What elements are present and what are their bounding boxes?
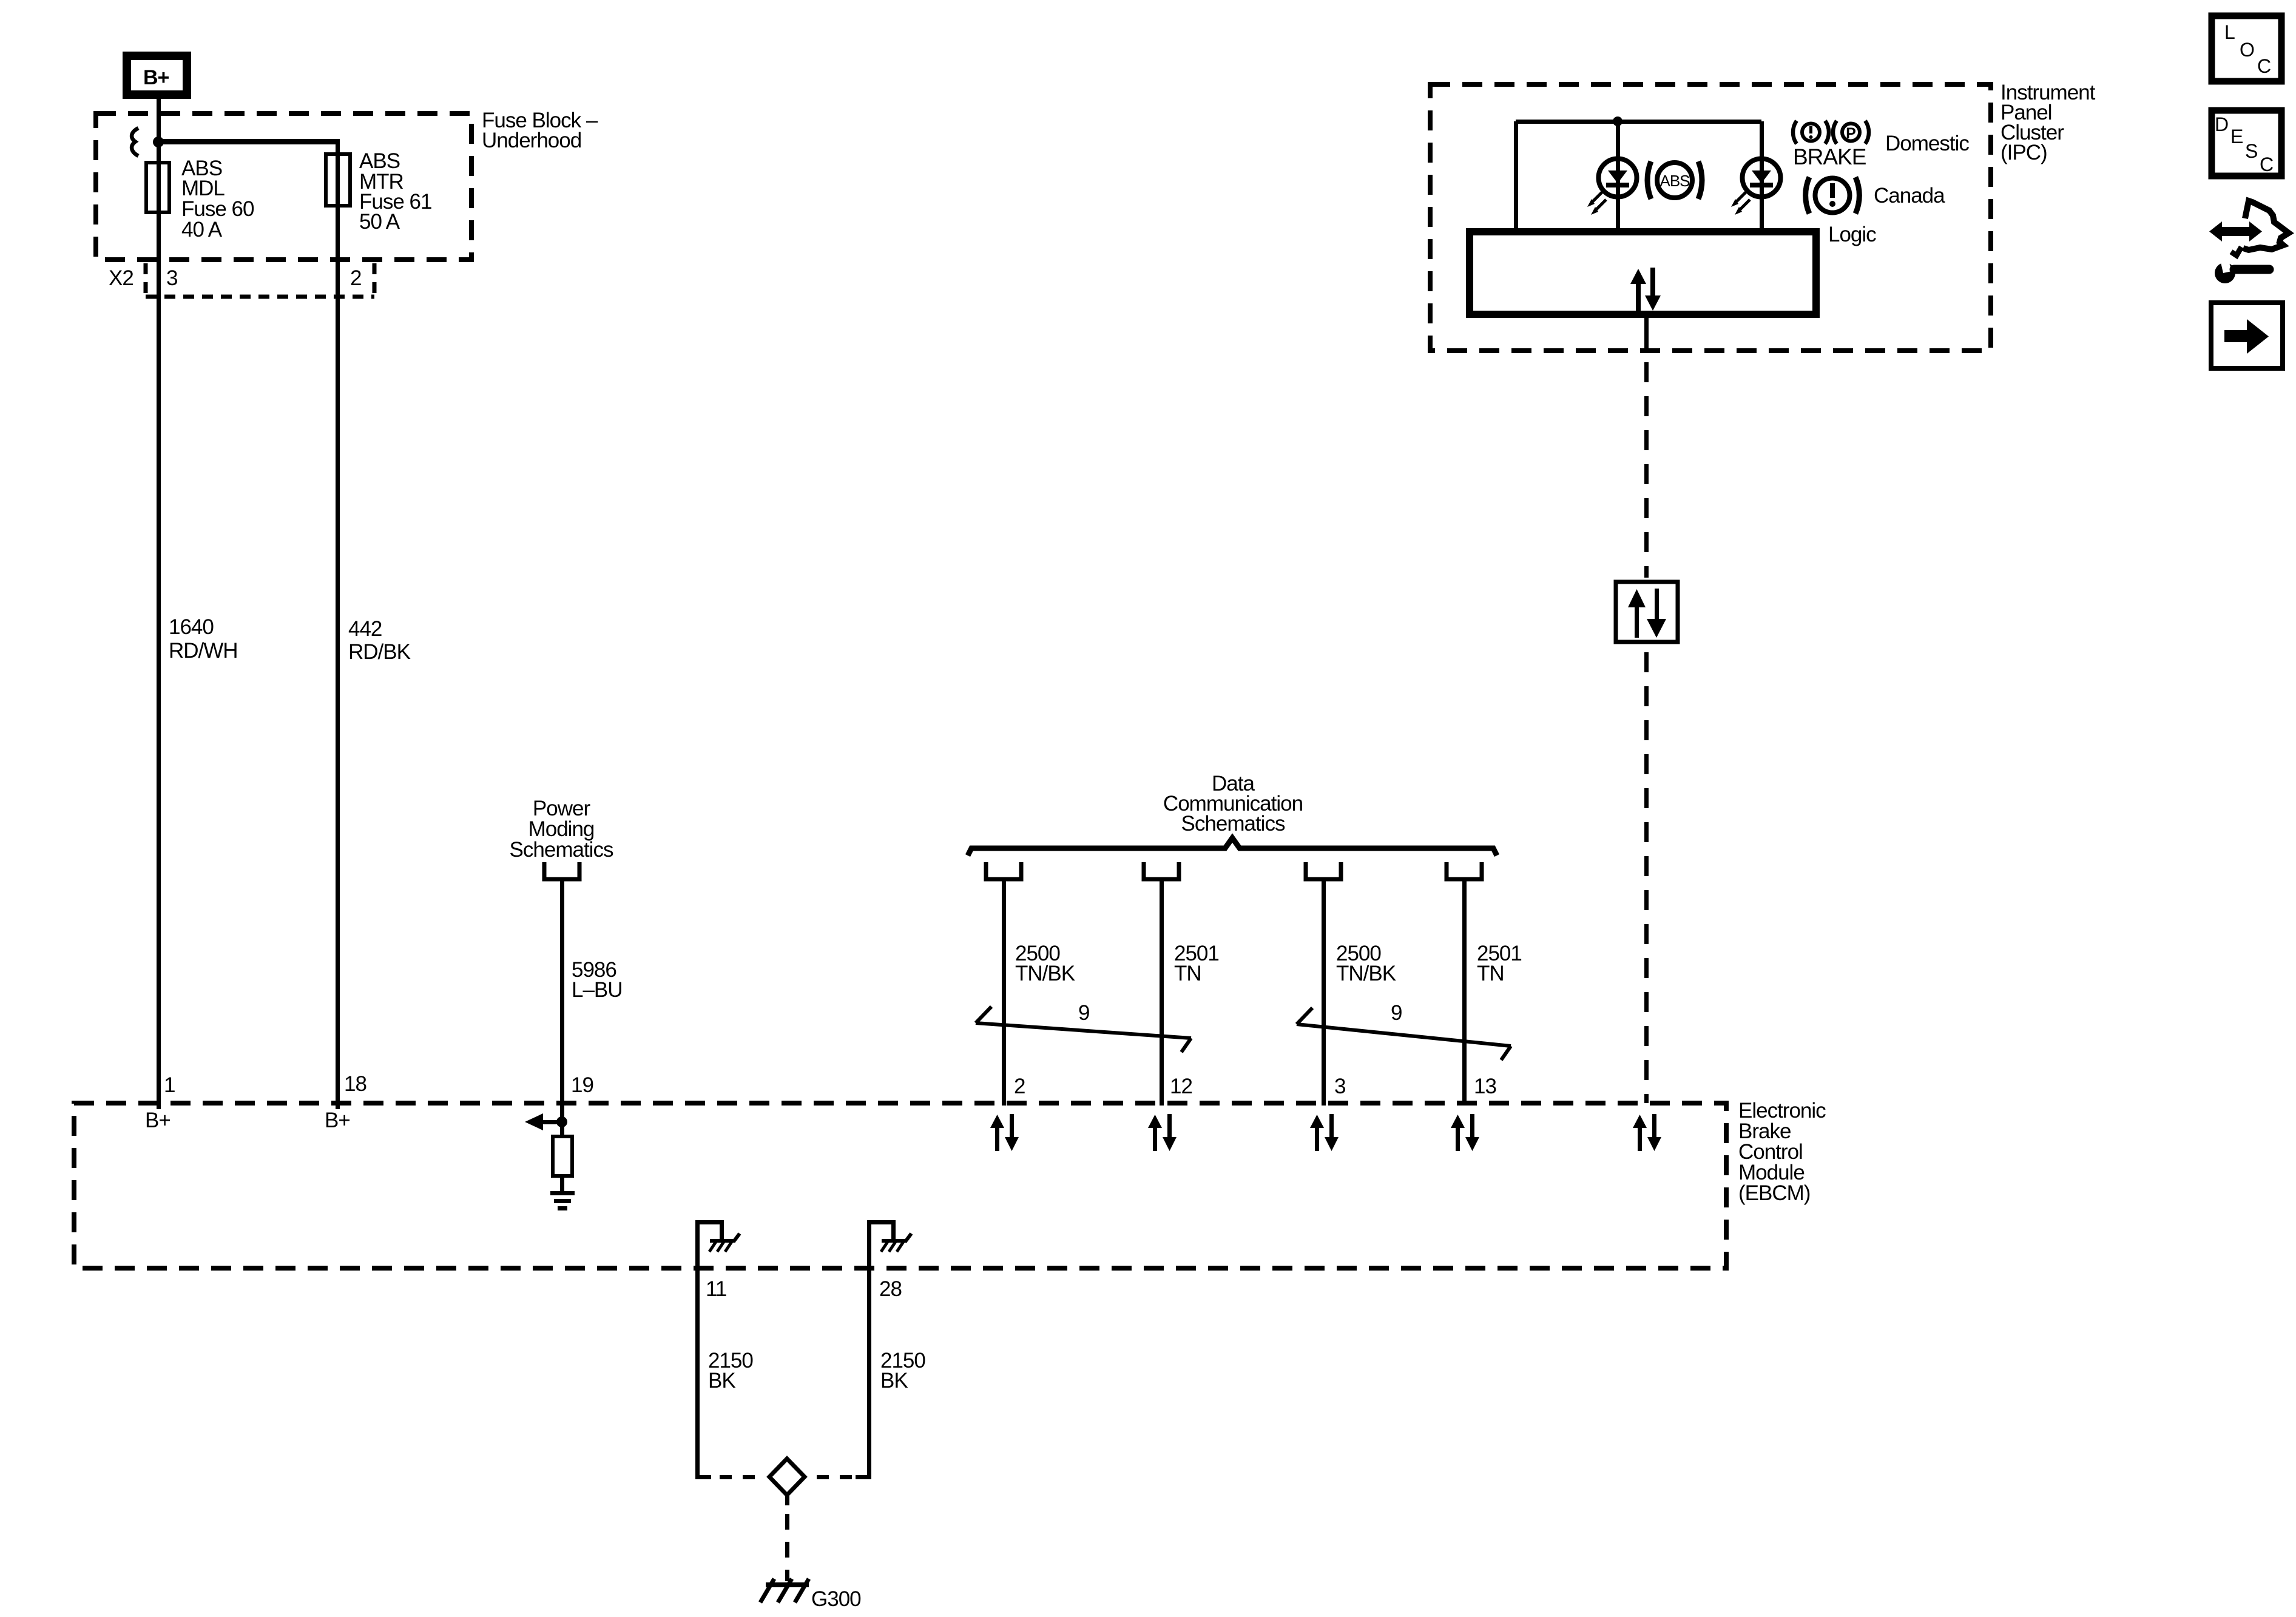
wire fuse 61 leg: [336, 142, 340, 1109]
pin19 internal: arrow to logic: [525, 1113, 543, 1130]
logic up/down arrows: [1630, 268, 1661, 312]
EBCM ground pin 28 internal: [867, 1220, 911, 1477]
svg-text:(EBCM): (EBCM): [1738, 1181, 1810, 1205]
svg-text:9: 9: [1391, 1001, 1402, 1025]
data bus bracket pin13: [1447, 862, 1482, 885]
IPC logic block: [1470, 232, 1816, 314]
up/down arrows pin 12: [1148, 1114, 1177, 1151]
splice feed dashed (pin11 to splice): [695, 1475, 711, 1479]
DESC reference box: [2212, 110, 2281, 176]
svg-text:ABS: ABS: [1660, 172, 1690, 190]
data bus bracket pin3: [1306, 862, 1341, 885]
Instrument Panel Cluster dashed box: [1430, 84, 1991, 351]
svg-text:2: 2: [350, 266, 361, 290]
svg-text:12: 12: [1170, 1075, 1192, 1098]
IPC internal supply wire: [1516, 120, 1761, 124]
wire branch to fuse 61: [157, 139, 340, 144]
svg-text:28: 28: [879, 1277, 902, 1301]
BRAKE domestic indicator: [1793, 121, 1869, 169]
svg-text:19: 19: [571, 1073, 593, 1097]
wire to logic left: [1514, 121, 1518, 231]
svg-text:G300: G300: [811, 1587, 861, 1611]
off-page bracket power moding: [544, 862, 579, 879]
up/down arrows pin 3: [1310, 1114, 1339, 1151]
svg-text:11: 11: [706, 1277, 726, 1301]
splice feed dashed (pin28 to splice): [856, 1475, 871, 1479]
junction dot pin19: [556, 1116, 567, 1127]
svg-text:E: E: [2230, 126, 2243, 147]
svg-text:3: 3: [1334, 1075, 1345, 1098]
svg-text:40 A: 40 A: [181, 218, 223, 241]
data communication brace: [968, 838, 1497, 856]
resistor (EBCM internal pull): [553, 1136, 572, 1176]
wire pin19 stub below line: [560, 1106, 564, 1136]
Canada brake indicator: [1806, 177, 1860, 214]
up/down arrows serial data pin: [1633, 1114, 1661, 1151]
svg-text:BRAKE: BRAKE: [1793, 144, 1866, 169]
svg-text:442: 442: [348, 617, 382, 641]
wire 2500 TN/BK (pin3): [1322, 883, 1326, 1106]
svg-text:13: 13: [1474, 1075, 1496, 1098]
svg-text:S: S: [2245, 140, 2258, 162]
splice clip curl: [132, 128, 138, 156]
EBCM dashed box: [74, 1103, 1726, 1268]
svg-text:Underhood: Underhood: [482, 129, 581, 152]
svg-text:Logic: Logic: [1828, 223, 1876, 246]
fuse F60 ABS MDL 40A: [146, 163, 169, 212]
twisted pair slash (bus 9, left): [976, 1007, 1191, 1052]
wire 2501 TN (pin12): [1160, 883, 1164, 1106]
splice diamond: [769, 1459, 805, 1495]
wire 5986 L-BU: [560, 883, 564, 1106]
twisted pair slash (bus 9, right): [1297, 1008, 1511, 1060]
svg-text:B+: B+: [325, 1109, 350, 1132]
svg-text:Schematics: Schematics: [510, 838, 613, 862]
svg-text:P: P: [1846, 125, 1856, 142]
LED1 brake warning lamp: [1587, 159, 1637, 215]
svg-text:L: L: [2224, 21, 2235, 43]
LED2 ABS warning lamp: [1731, 159, 1781, 215]
svg-text:D: D: [2215, 113, 2229, 135]
svg-text:TN: TN: [1174, 962, 1201, 985]
wire through LED2: [1760, 121, 1764, 231]
svg-text:9: 9: [1078, 1001, 1089, 1025]
svg-text:C: C: [2257, 55, 2271, 77]
wire through LED1: [1616, 121, 1620, 231]
svg-text:Domestic: Domestic: [1885, 132, 1969, 155]
B+ battery symbol: [127, 56, 187, 95]
svg-text:TN/BK: TN/BK: [1015, 962, 1075, 985]
svg-text:L–BU: L–BU: [572, 978, 623, 1002]
LOC reference box: [2212, 16, 2281, 81]
svg-text:C: C: [2260, 154, 2274, 175]
ground (signal ground): [550, 1191, 575, 1195]
svg-text:1640: 1640: [169, 615, 214, 639]
svg-text:18: 18: [344, 1072, 366, 1096]
hand/wrench service icon: [2209, 201, 2289, 283]
up/down arrows pin 2: [990, 1114, 1019, 1151]
svg-text:TN: TN: [1477, 962, 1504, 985]
data bus bracket pin12: [1144, 862, 1179, 885]
splice lower stub: [785, 1496, 789, 1505]
forward reference arrow box: [2211, 303, 2283, 368]
svg-text:BK: BK: [708, 1369, 735, 1393]
ABS warning indicator icon: [1647, 161, 1702, 199]
svg-text:2: 2: [1014, 1075, 1025, 1098]
svg-text:Canada: Canada: [1874, 184, 1945, 208]
svg-text:50 A: 50 A: [359, 210, 400, 234]
svg-text:O: O: [2240, 39, 2255, 61]
serial data wire IPC to EBCM: [1644, 314, 1649, 352]
junction dot IPC: [1613, 116, 1622, 126]
svg-text:Schematics: Schematics: [1181, 812, 1285, 836]
svg-text:(IPC): (IPC): [2001, 141, 2047, 164]
svg-text:RD/BK: RD/BK: [348, 640, 411, 664]
fuse block underhood dashed box: [96, 113, 471, 260]
serial data wire lower: [1644, 652, 1649, 1103]
svg-text:1: 1: [164, 1073, 175, 1097]
up/down arrows pin 13: [1451, 1114, 1479, 1151]
wire 2500 TN/BK (pin2): [1002, 883, 1006, 1106]
svg-text:RD/WH: RD/WH: [169, 639, 238, 663]
svg-text:3: 3: [166, 266, 177, 290]
svg-text:B+: B+: [143, 66, 169, 89]
junction node: [153, 137, 164, 147]
svg-text:X2: X2: [109, 266, 133, 290]
wire resistor to ground: [560, 1176, 564, 1193]
wire 2501 TN (pin13): [1462, 883, 1467, 1106]
fuse F61 ABS MTR 50A: [326, 154, 350, 206]
EBCM ground pin 11 internal: [695, 1220, 740, 1477]
dashed wire to G300: [785, 1514, 789, 1581]
connector X2 dashed outline: [146, 263, 374, 297]
inline connector (serial data): [1616, 582, 1678, 642]
wire B+ to fuse 60 to X2 pin 3 to EBCM pin 1: [157, 95, 161, 1109]
svg-text:TN/BK: TN/BK: [1336, 962, 1396, 985]
svg-text:BK: BK: [880, 1369, 908, 1393]
ground G300: [760, 1579, 809, 1602]
data bus bracket pin2: [986, 862, 1021, 885]
svg-text:B+: B+: [145, 1109, 171, 1132]
